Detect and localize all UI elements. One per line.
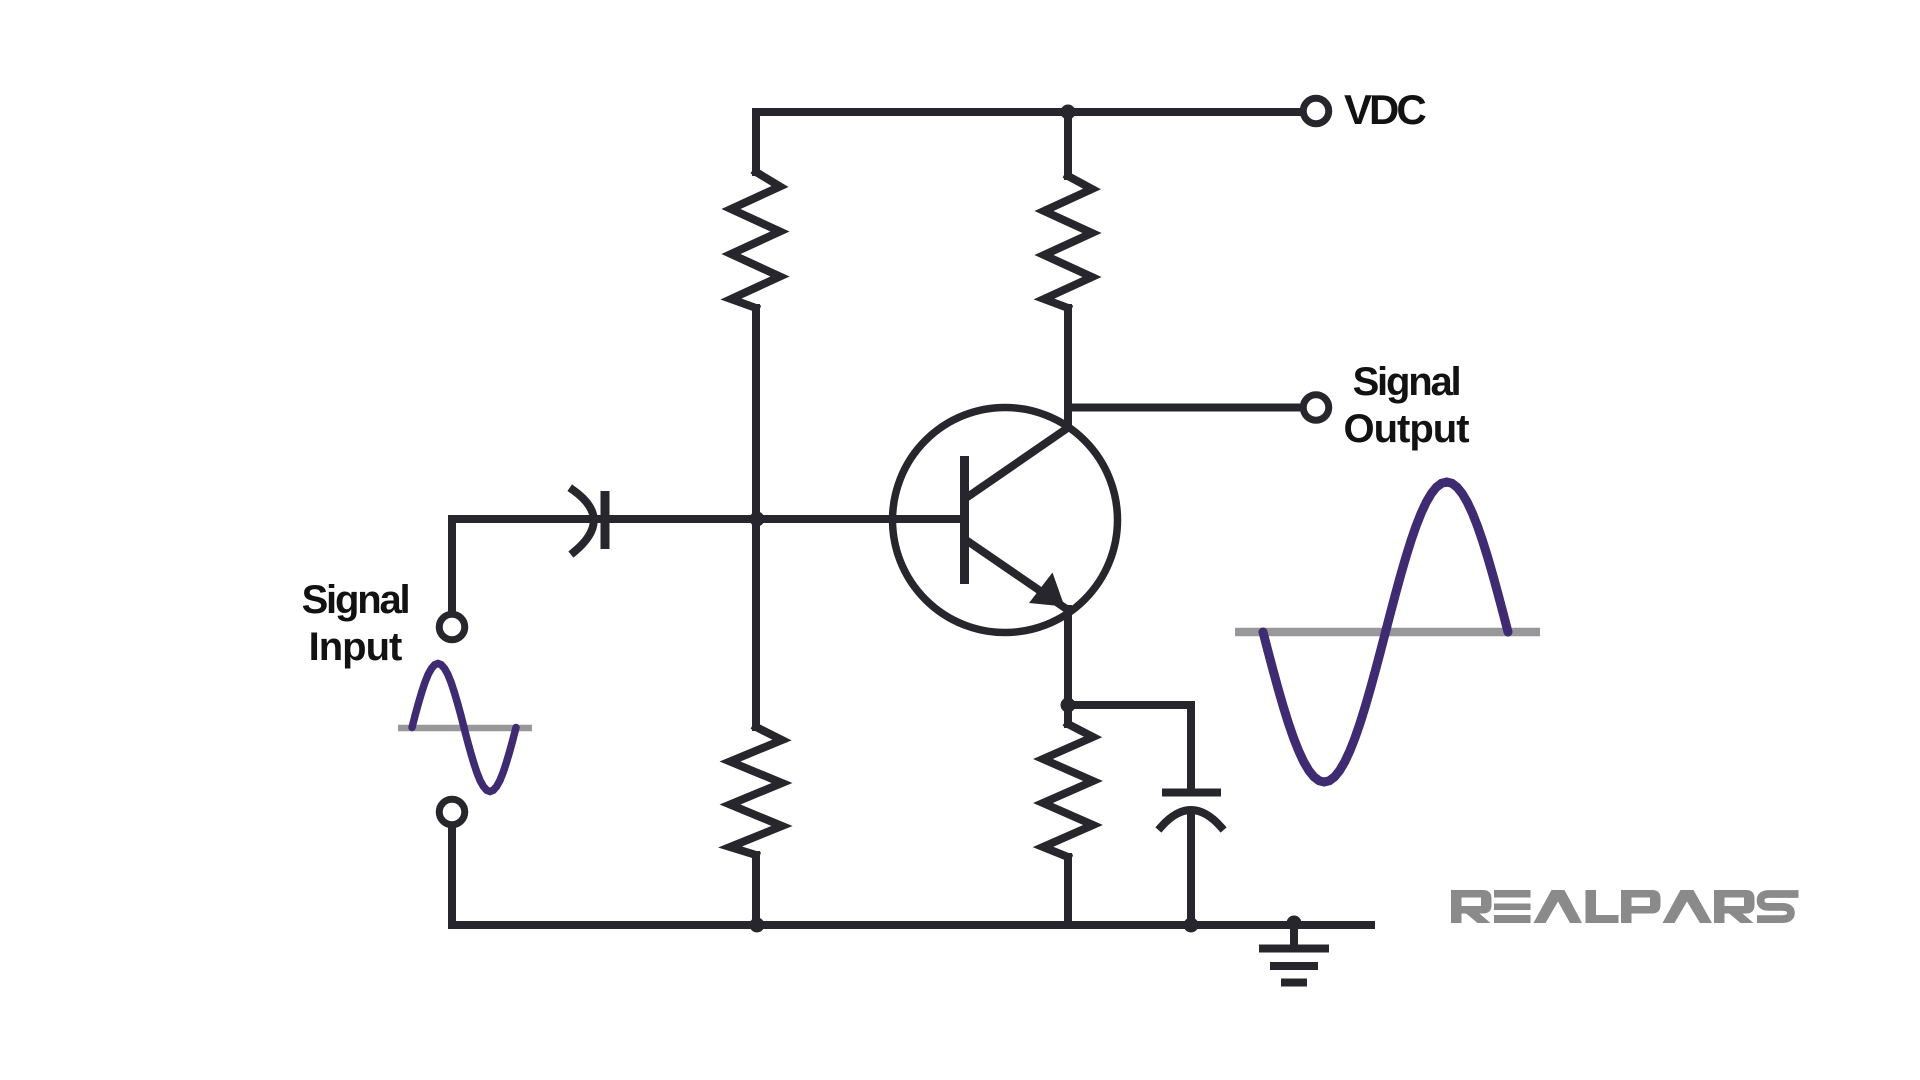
junction dot R2 bottom [750,918,765,933]
junction dot top rail [1061,105,1076,120]
wire ground stem [1290,925,1298,948]
logo letter S [1757,894,1799,919]
terminal input bottom [439,799,465,825]
resistor RE [1043,724,1093,857]
terminal input top [439,614,465,640]
junction dot ground [1287,916,1302,931]
wire signal output [1068,404,1303,412]
wire base horizontal [452,515,960,523]
logo letter A2 [1663,890,1713,923]
transistor Q1 collector diagonal [966,427,1069,498]
input signal centerline [398,725,532,732]
junction dot base node [750,512,765,527]
wire R2 bottom lead [752,855,760,925]
wire bottom rail [452,921,1371,929]
logo letter A [1534,890,1583,923]
resistor R2 [730,727,782,855]
junction dot CE bottom [1184,918,1199,933]
logo letter P [1621,890,1661,923]
logo REALPARS [1451,890,1799,923]
capacitor Cin right plate [601,496,610,545]
label VDC [1344,86,1424,133]
wire input bottom vertical [448,828,456,925]
resistor R1 [731,172,780,308]
resistor RC [1044,176,1092,308]
junction dot emitter node [1061,698,1076,713]
capacitor Cin curved plate [573,490,594,552]
wire R2 top lead [752,519,760,727]
label signal output [1341,359,1471,453]
logo letter E [1494,890,1531,923]
terminal VDC [1303,98,1329,124]
output signal sine [1263,482,1508,782]
transistor Q1 circle [893,408,1118,633]
logo letter L [1586,890,1619,923]
label signal input [290,577,420,671]
capacitor CE top plate [1166,789,1217,797]
wire RE top lead [1064,705,1072,724]
wire R1 to base node [752,308,760,519]
terminal signal output [1303,395,1329,421]
wire RC top lead [1064,112,1072,176]
logo letter R2 [1714,890,1755,923]
ground bar 2 [1274,962,1314,970]
transistor Q1 emitter arrow [1029,573,1065,607]
capacitor CE curved plate [1161,810,1221,827]
ground bar 3 [1285,979,1303,987]
transistor Q1 base bar [960,456,969,584]
transistor Q1 emitter diagonal [966,540,1068,610]
wire CE bottom lead [1187,812,1195,925]
wire top rail VDC [756,112,1302,172]
input signal sine [412,664,516,792]
output signal centerline [1235,628,1540,637]
wire emitter vertical [1064,609,1072,705]
logo letter R [1451,890,1492,923]
wire RE bottom lead [1064,857,1072,925]
wire input top vertical [448,519,456,612]
wire collector vertical [1064,308,1072,428]
ground bar 1 [1263,945,1325,953]
wire emitter to CE branch [1068,705,1191,792]
